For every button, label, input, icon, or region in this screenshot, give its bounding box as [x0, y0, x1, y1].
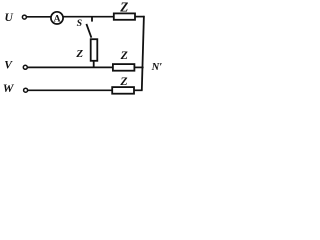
- svg-text:Z: Z: [119, 74, 127, 88]
- svg-text:V: V: [4, 59, 13, 72]
- svg-text:W: W: [3, 81, 15, 95]
- wire Z W to bus: [134, 89, 143, 91]
- svg-text:A: A: [54, 14, 61, 25]
- svg-text:Z: Z: [119, 0, 128, 15]
- svg-text:U: U: [5, 11, 14, 24]
- wire Z box to V line: [93, 61, 95, 68]
- svg-text:N′: N′: [151, 62, 163, 73]
- impedance Z V box: [113, 64, 134, 71]
- svg-text:Z: Z: [75, 48, 83, 60]
- bus N' vertical: [142, 16, 144, 91]
- impedance Z W box: [112, 87, 134, 94]
- wire Z V to bus: [134, 66, 143, 68]
- wire W line: [28, 89, 113, 91]
- terminal V: [23, 65, 27, 69]
- impedance Z vertical box: [91, 39, 98, 61]
- ammeter A1: [51, 12, 63, 24]
- svg-text:S: S: [77, 18, 83, 29]
- switch S upper stub: [91, 17, 93, 22]
- background: [0, 0, 170, 105]
- wire V line: [28, 66, 114, 68]
- impedance Z top box: [114, 13, 135, 19]
- svg-text:Z: Z: [120, 48, 128, 62]
- switch S blade: [86, 24, 91, 38]
- terminal U: [22, 15, 26, 19]
- terminal W: [24, 88, 28, 92]
- wire U ammeter to box Z: [63, 16, 114, 18]
- wire U terminal to ammeter: [27, 16, 52, 18]
- wire Z top to bus: [135, 16, 145, 18]
